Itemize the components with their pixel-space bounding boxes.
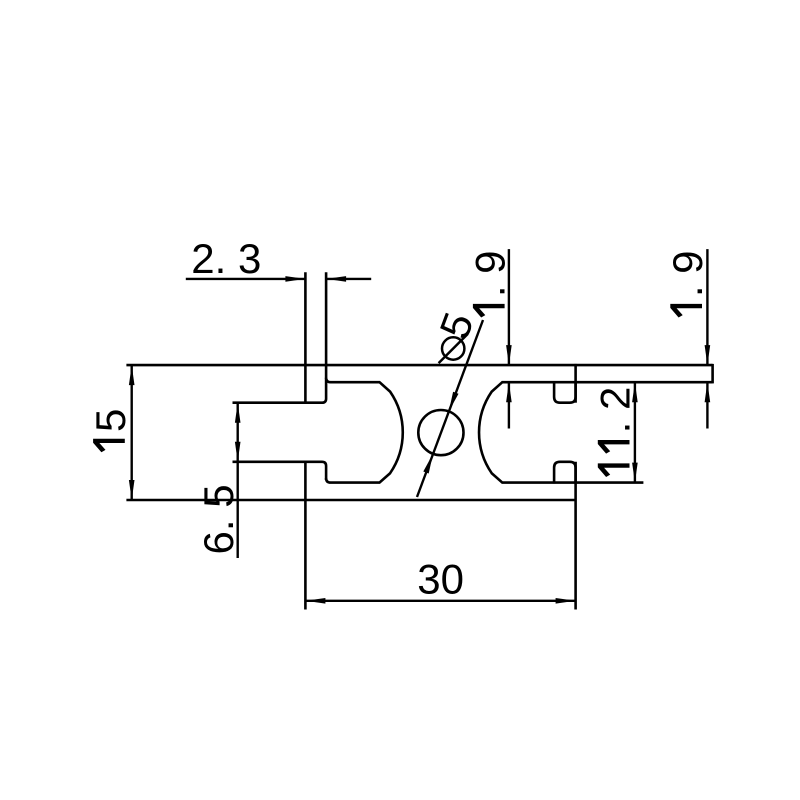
dim line 6.5 [236, 403, 238, 558]
profile bottom surface line [126, 499, 575, 502]
arrow 15 bottom [129, 480, 135, 500]
arrow 1.9 center up [506, 382, 512, 402]
diameter symbol circle [442, 337, 464, 359]
svg-text:. 2: . 2 [592, 387, 639, 434]
diameter symbol slash [439, 334, 468, 363]
label 1.9 center [467, 250, 514, 317]
dim line 2.3 right [326, 278, 371, 280]
dim line 30 [305, 600, 575, 602]
arrow 30 left [305, 598, 325, 604]
svg-text:. 9: . 9 [664, 250, 711, 297]
right face lower and 30 extension [574, 462, 577, 610]
dim line 11.2 [634, 382, 636, 482]
arrow 1.9 right up [705, 382, 711, 402]
label 11.2 [592, 387, 639, 477]
center hole circle [418, 410, 463, 455]
svg-text:30: 30 [417, 555, 464, 602]
right face upper [574, 364, 577, 403]
svg-text:5: 5 [87, 409, 134, 432]
top lip inner wall [233, 272, 327, 402]
left cavity ceiling arc floor [326, 378, 403, 483]
svg-text:. 9: . 9 [467, 250, 514, 297]
flange right end [711, 364, 714, 384]
label 15 [87, 409, 134, 453]
arrow 6.5 bottom [235, 442, 241, 462]
diameter leader line [417, 320, 483, 497]
arrow diameter top [449, 392, 459, 412]
arrow 11.2 bottom [632, 463, 638, 483]
svg-text:2. 3: 2. 3 [191, 235, 261, 282]
arrow 1.9 center down [506, 345, 512, 365]
arrow 1.9 right down [705, 345, 711, 365]
profile top surface line [126, 364, 712, 367]
svg-text:6. 5: 6. 5 [195, 484, 242, 554]
bottom nub [554, 462, 576, 484]
right cavity ceiling arc floor [479, 382, 713, 482]
arrow 30 right [556, 598, 576, 604]
bottom lip inner wall [233, 462, 327, 480]
dim line 1.9 right upper [706, 249, 708, 365]
arrow 2.3 left [285, 276, 305, 282]
arrow 2.3 right [326, 276, 346, 282]
dim line 1.9 right lower [706, 382, 708, 428]
left face top lip [304, 272, 307, 402]
dim line 15 [130, 365, 132, 500]
dim line 1.9 center upper [508, 249, 510, 365]
left face bottom lip [304, 462, 307, 610]
arrow 11.2 top [632, 382, 638, 402]
svg-text:5: 5 [430, 306, 482, 344]
arrow diameter bottom [423, 454, 433, 474]
dim line 2.3 left [186, 278, 306, 280]
arrow 6.5 top [235, 403, 241, 423]
arrow 15 top [129, 365, 135, 385]
label 1.9 right [664, 250, 711, 317]
top nub [554, 381, 576, 403]
dim line 1.9 center lower [508, 382, 510, 428]
